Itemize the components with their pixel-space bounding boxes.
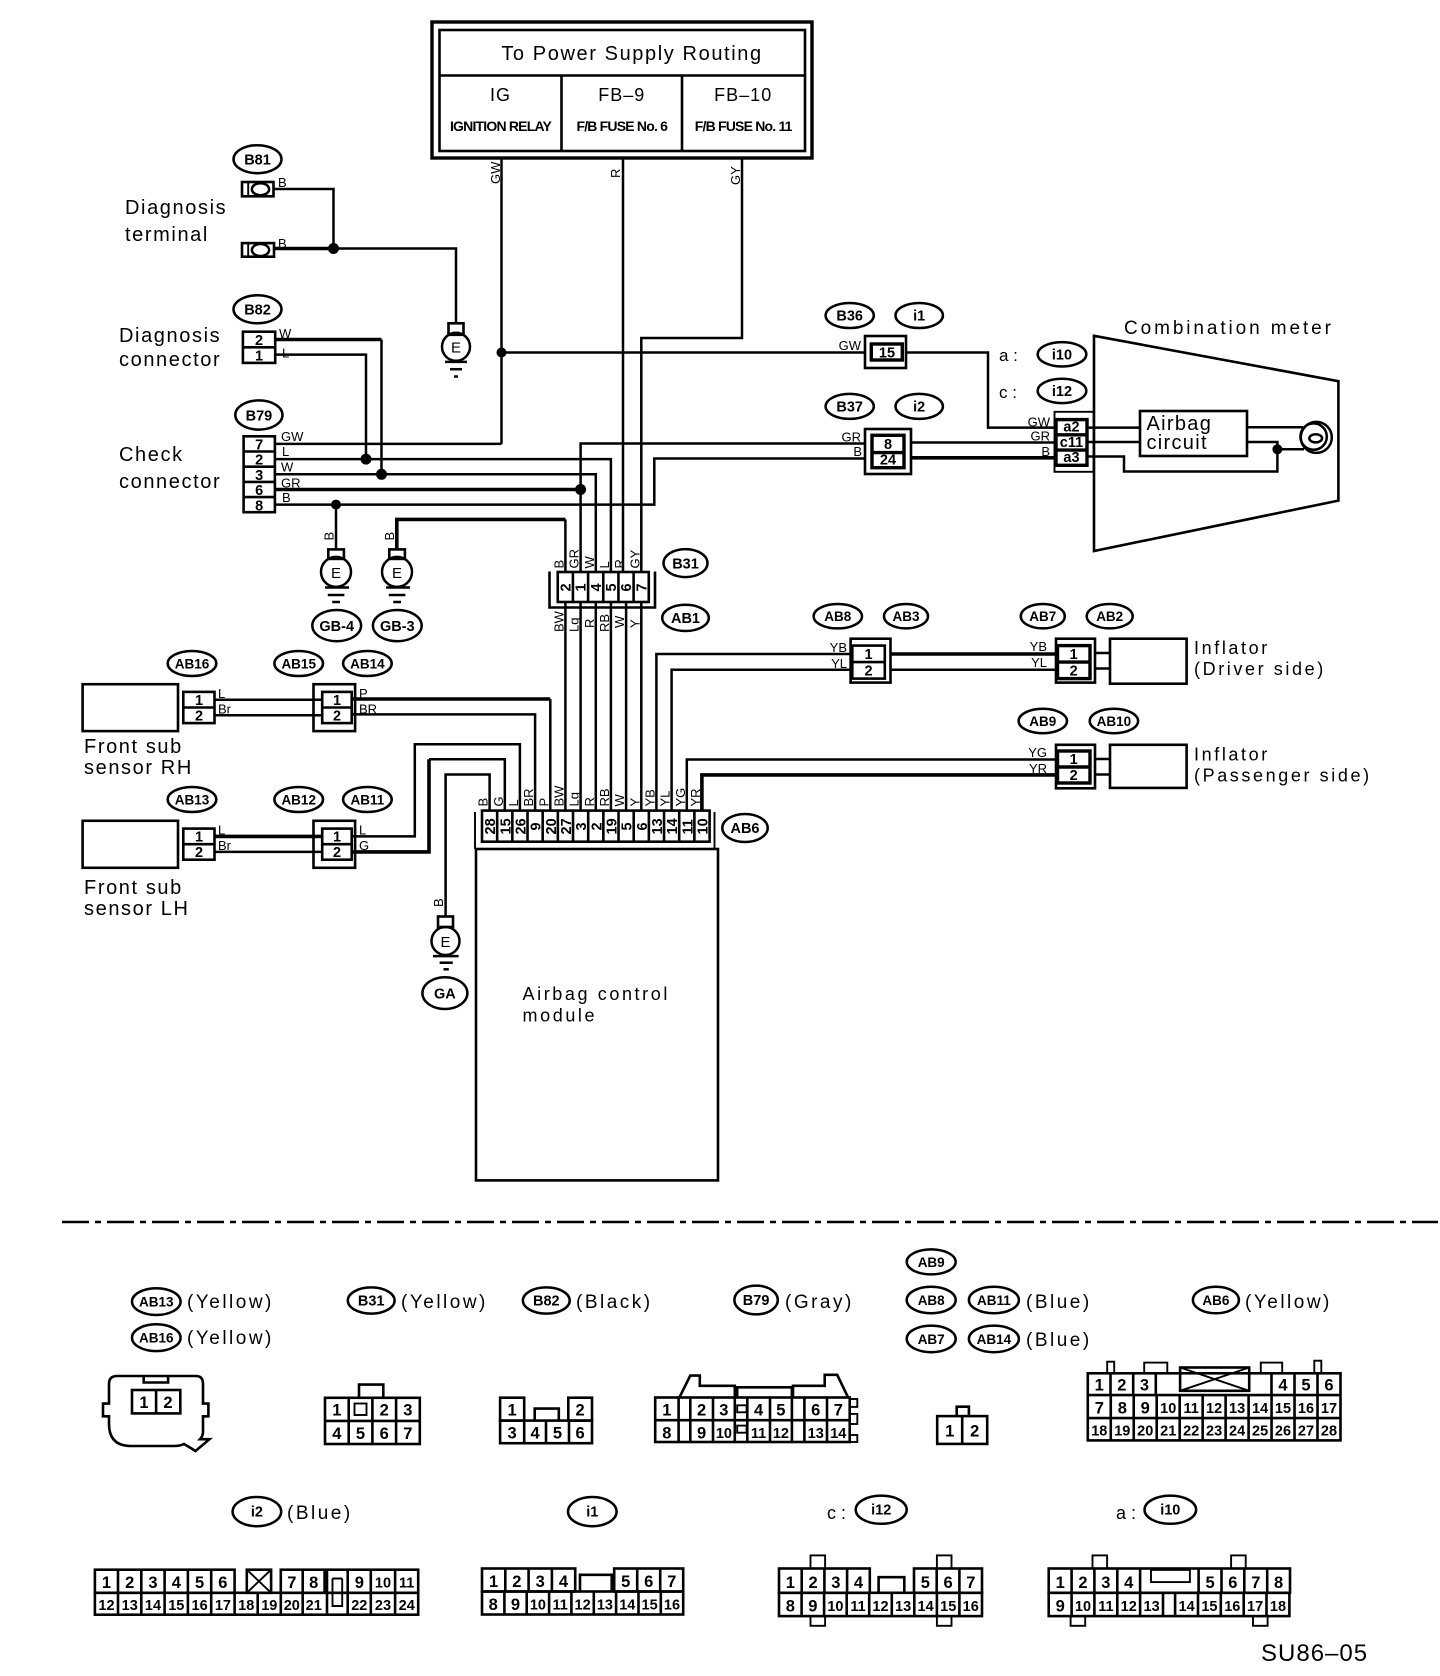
airbag circuit box [1140,411,1247,456]
svg-text:1: 1 [1070,647,1078,663]
svg-text:3: 3 [148,1574,157,1592]
wire BR to module pin9 [352,714,535,810]
svg-text:11: 11 [1098,1599,1113,1615]
svg-text:15: 15 [940,1599,956,1615]
bottom legend AB16 label [132,1324,181,1351]
i2 connector face [95,1570,418,1615]
svg-text:4: 4 [1278,1377,1288,1395]
svg-text:2: 2 [809,1574,818,1592]
svg-text:19: 19 [1114,1424,1130,1440]
diagnosis terminal 1 [242,182,274,196]
svg-text:2: 2 [589,822,605,830]
connector i2 label [896,394,943,419]
svg-text:2: 2 [1070,768,1078,784]
svg-text:RB: RB [597,788,612,806]
wire terminal1 [274,189,334,249]
connector AB12 label [274,787,323,812]
wire YL module pin14 to AB8 [672,670,853,811]
svg-text:a2: a2 [1063,420,1079,436]
wire GW to combination meter B36 [502,351,866,354]
connector B36 pin 15 [865,336,906,368]
svg-text:21: 21 [1160,1424,1176,1440]
wire junction to lamp [1277,448,1304,451]
wire AB8 to AB7 YB [891,652,1058,656]
svg-text:3: 3 [536,1573,545,1591]
svg-text:6: 6 [576,1425,585,1443]
wire check GW [275,443,502,446]
svg-text:YG: YG [1028,745,1047,760]
bottom legend AB6 label [1193,1287,1239,1314]
svg-text:8: 8 [884,437,892,453]
svg-text:Front sub: Front sub [84,736,183,758]
svg-text:5: 5 [620,822,636,830]
svg-text:1: 1 [102,1574,111,1592]
ground E (diagnosis) [442,323,470,376]
connector AB6 label [722,814,767,842]
svg-text:B: B [282,490,291,505]
svg-text:B: B [431,898,446,907]
svg-text:R: R [582,797,597,806]
svg-text:10: 10 [530,1598,546,1614]
svg-text:F/B FUSE No. 6: F/B FUSE No. 6 [576,118,668,134]
svg-text:2: 2 [163,1394,172,1412]
svg-text:10: 10 [1075,1599,1091,1615]
svg-text:8: 8 [786,1598,795,1616]
svg-text:GW: GW [488,161,503,184]
i10 connector face [1049,1555,1290,1625]
svg-text:7: 7 [255,438,263,454]
svg-text:13: 13 [895,1599,911,1615]
svg-text:2: 2 [697,1402,706,1420]
svg-text:12: 12 [1206,1401,1222,1417]
svg-text:16: 16 [1224,1599,1240,1615]
svg-text:Diagnosis: Diagnosis [125,197,227,219]
svg-text:1: 1 [1095,1377,1104,1395]
svg-text:6: 6 [1324,1377,1333,1395]
svg-text:2: 2 [195,845,203,861]
svg-text:5: 5 [195,1574,204,1592]
wire check B to B37 pin24 [275,459,865,505]
connector AB10 label [1090,709,1138,733]
connector AB2 label [1087,604,1133,628]
svg-text:sensor RH: sensor RH [84,757,193,779]
svg-text:i1: i1 [913,309,925,325]
svg-text:13: 13 [650,818,666,834]
svg-text:18: 18 [1270,1599,1286,1615]
connector i1 label [896,303,943,328]
wire P to module pin20 [352,697,551,701]
svg-text:GR: GR [842,430,862,445]
svg-text:a :: a : [999,346,1018,365]
connector AB15 label [274,651,323,676]
svg-text:23: 23 [1206,1424,1222,1440]
wire B down to GB-4 [335,505,338,550]
svg-text:22: 22 [1183,1424,1199,1440]
wire Y B31 to pin6 [640,602,643,811]
svg-text:AB10: AB10 [1097,714,1132,729]
svg-text:L: L [282,444,289,459]
svg-text:3: 3 [403,1402,412,1420]
svg-text:Y: Y [627,798,642,807]
sensor RH connector cells [183,692,214,725]
svg-text:9: 9 [529,822,545,830]
connector AB13 label [168,787,217,812]
svg-text:(Yellow): (Yellow) [187,1328,274,1349]
svg-text:(Black): (Black) [576,1292,653,1313]
svg-text:4: 4 [754,1402,764,1420]
connector AB8 [851,639,891,683]
svg-text:5: 5 [356,1425,365,1443]
svg-text:SU86–05: SU86–05 [1261,1640,1368,1667]
svg-text:AB15: AB15 [281,657,316,672]
svg-text:W: W [582,556,597,569]
svg-text:8: 8 [662,1425,671,1443]
svg-text:3: 3 [1140,1377,1149,1395]
svg-text:17: 17 [1321,1401,1337,1417]
svg-text:B: B [551,560,566,569]
svg-text:26: 26 [513,818,529,834]
svg-text:2: 2 [125,1574,134,1592]
svg-text:7: 7 [667,1573,676,1591]
svg-text:E: E [451,340,461,357]
connector AB11 label [343,787,392,812]
svg-text:16: 16 [1298,1401,1314,1417]
wire sensor LH pin1 to AB12 [215,835,323,839]
svg-text:15: 15 [168,1598,184,1614]
svg-text:AB1: AB1 [671,611,700,627]
svg-text:16: 16 [664,1598,680,1614]
svg-text:AB2: AB2 [1096,609,1123,624]
svg-text:c11: c11 [1060,435,1083,451]
front sub sensor RH box [83,684,178,731]
svg-text:Check: Check [119,444,184,466]
svg-text:15: 15 [642,1598,658,1614]
bottom legend AB9 label [907,1249,956,1274]
wire L AB12 to module pin26 [352,744,520,836]
bottom legend B82 label [523,1287,570,1313]
svg-text:AB9: AB9 [918,1255,945,1270]
svg-text:15: 15 [498,818,514,834]
svg-text:GB-3: GB-3 [380,619,415,635]
connector AB8 label [814,604,862,628]
svg-text:9: 9 [697,1425,706,1443]
bottom legend B31 label [348,1287,395,1313]
svg-text:2: 2 [1070,664,1078,680]
svg-text:R: R [612,559,627,568]
svg-text:Front sub: Front sub [84,877,183,899]
svg-text:B: B [853,444,862,459]
connector AB12 [314,821,356,868]
svg-text:27: 27 [1298,1424,1314,1440]
svg-text:7: 7 [1095,1400,1104,1418]
svg-text:12: 12 [575,1598,591,1614]
svg-text:1: 1 [195,693,203,709]
svg-text:7: 7 [287,1574,296,1592]
svg-text:14: 14 [1252,1401,1268,1417]
svg-text:8: 8 [1118,1400,1127,1418]
GB-4 label [312,610,361,641]
connector AB1 label [662,605,709,631]
inflator passenger side box [1110,745,1187,788]
svg-text:9: 9 [808,1598,817,1616]
svg-text:module: module [523,1006,598,1026]
svg-text:Inflator: Inflator [1194,745,1270,765]
svg-text:connector: connector [119,349,221,371]
connector B31 [550,572,656,608]
svg-text:6: 6 [380,1425,389,1443]
svg-text:AB3: AB3 [892,609,919,624]
connector AB9 label [1019,709,1067,733]
svg-text:F/B FUSE No. 11: F/B FUSE No. 11 [695,118,793,134]
bottom legend AB7 label [907,1326,956,1353]
svg-text:B: B [1041,444,1050,459]
svg-text:(Blue): (Blue) [287,1503,353,1524]
connector B82 label [234,295,282,323]
svg-text:14: 14 [918,1599,934,1615]
svg-text:24: 24 [1229,1424,1245,1440]
svg-text:3: 3 [574,822,590,830]
wire B pin28 to ground GA [446,775,490,917]
svg-text:5: 5 [776,1402,785,1420]
bottom legend AB8 label [907,1287,956,1314]
connector AB15 [314,684,356,731]
GA label [422,977,467,1009]
svg-text:GR: GR [1031,429,1051,444]
connector B81 label [234,145,282,173]
svg-text:AB11: AB11 [977,1293,1011,1308]
svg-text:AB14: AB14 [977,1332,1012,1347]
svg-text:5: 5 [604,583,620,591]
svg-text:AB7: AB7 [1029,609,1056,624]
svg-text:4: 4 [172,1574,182,1592]
link AB7 to inflator [1095,653,1110,669]
svg-text:L: L [282,346,289,361]
svg-text:7: 7 [634,583,650,591]
wire sensor RH pin2 to AB15 [215,714,323,717]
svg-text:13: 13 [808,1426,824,1442]
svg-text:25: 25 [1252,1424,1268,1440]
svg-text:W: W [281,460,294,475]
connector a2/c11/a3 [1055,412,1094,472]
svg-text:B79: B79 [246,409,273,425]
svg-text:15: 15 [879,346,895,362]
connector B79 (check) [244,436,275,514]
svg-text:B: B [322,532,337,541]
svg-text:2: 2 [558,583,574,591]
svg-text:i2: i2 [251,1505,263,1521]
svg-text:2: 2 [380,1402,389,1420]
wire GY from FB-10 [641,158,742,572]
svg-text:1: 1 [1070,752,1078,768]
junction B to ground GB-4 [331,500,341,510]
svg-text:i12: i12 [871,1503,891,1519]
wire B82 W [275,338,381,342]
svg-text:5: 5 [1206,1574,1215,1592]
svg-text:connector: connector [119,471,221,493]
svg-text:1: 1 [574,583,590,591]
wire c11 to airbag circuit [1087,441,1140,444]
svg-text:IG: IG [490,85,511,105]
connector AB16 label [168,651,217,676]
svg-text:19: 19 [261,1598,277,1614]
connector B31 label [664,549,708,577]
svg-text:14: 14 [665,818,681,834]
svg-text:4: 4 [559,1573,569,1591]
svg-text:2: 2 [512,1573,521,1591]
svg-text:2: 2 [195,709,203,725]
svg-text:Lg: Lg [567,792,582,806]
AB13/AB16 connector face [103,1376,210,1451]
svg-text:10: 10 [695,818,711,834]
svg-text:2: 2 [576,1402,585,1420]
svg-text:(Gray): (Gray) [785,1292,854,1313]
i12 connector face [779,1555,982,1625]
bottom legend i10 label [1145,1496,1197,1524]
bottom legend i1 label [568,1497,617,1526]
svg-text:6: 6 [635,822,651,830]
svg-text:18: 18 [238,1598,254,1614]
svg-text:10: 10 [716,1426,732,1442]
svg-text:(Passenger side): (Passenger side) [1194,766,1372,786]
junction GW to B36 [497,348,507,358]
connector AB6 pin row [482,811,711,842]
front sub sensor LH box [83,821,178,868]
wire a2 to airbag circuit [1087,426,1140,429]
B31 connector face [325,1385,420,1444]
svg-text:6: 6 [255,483,263,499]
wire YB module pin13 to AB8 [656,654,852,811]
svg-text:1: 1 [662,1402,671,1420]
ground E GB-4 [321,549,351,602]
svg-text:11: 11 [850,1599,865,1615]
svg-text:3: 3 [508,1425,517,1443]
svg-text:11: 11 [1184,1401,1199,1417]
svg-text:1: 1 [255,349,263,365]
svg-text:AB11: AB11 [351,793,385,808]
wire R B31 to pin2 [595,602,598,811]
svg-text:GY: GY [728,166,743,185]
svg-text:28: 28 [483,818,499,834]
svg-text:2: 2 [1117,1377,1126,1395]
B82 connector face [500,1398,592,1444]
svg-text:B31: B31 [358,1294,385,1310]
wire YG module pin11 to AB9 [687,760,1058,811]
ground E GA [432,917,460,970]
wire B37-24 to a3 [911,456,1055,460]
svg-text:11: 11 [553,1598,568,1614]
connector AB14 label [343,651,392,676]
connector B37 label [826,394,874,419]
svg-text:2: 2 [970,1423,979,1441]
svg-text:12: 12 [1121,1599,1137,1615]
svg-text:2: 2 [333,709,341,725]
svg-text:6: 6 [944,1574,953,1592]
connector B79 label [235,400,282,429]
svg-text:1: 1 [786,1574,795,1592]
svg-text:YB: YB [1030,639,1047,654]
junction W with B82 [376,469,387,480]
wire RB B31 to pin19 [610,602,613,811]
svg-text:terminal: terminal [125,224,209,246]
i1 connector face [482,1569,683,1615]
dashed separator [62,1221,1438,1224]
svg-text:23: 23 [375,1598,391,1614]
svg-text:AB13: AB13 [175,793,210,808]
svg-text:GB-4: GB-4 [319,619,354,635]
svg-text:2: 2 [864,664,872,680]
svg-text:3: 3 [1101,1574,1110,1592]
svg-text:2: 2 [333,845,341,861]
svg-text:E: E [392,565,402,582]
wire a3 loop under airbag circuit [1087,442,1277,472]
svg-text:16: 16 [192,1598,208,1614]
bottom legend AB14 label [969,1326,1019,1353]
svg-text:i10: i10 [1052,348,1072,364]
svg-text:20: 20 [544,818,560,834]
wire R from FB-9 [622,158,625,572]
svg-text:a :: a : [1116,1503,1136,1523]
svg-text:(Yellow): (Yellow) [1245,1292,1332,1313]
bottom legend B79 label [734,1286,777,1315]
wire sensor RH pin1 to AB15 [215,698,323,701]
svg-text:B: B [382,532,397,541]
svg-text:6: 6 [811,1402,820,1420]
svg-text:11: 11 [680,819,696,834]
svg-text:B37: B37 [836,400,863,416]
svg-text:B31: B31 [672,557,699,573]
svg-text:E: E [331,565,341,582]
svg-text:AB9: AB9 [1029,714,1056,729]
svg-text:GW: GW [1028,415,1051,430]
svg-text:AB16: AB16 [175,657,210,672]
svg-text:21: 21 [306,1598,322,1614]
svg-text:24: 24 [399,1598,415,1614]
svg-text:14: 14 [1179,1599,1195,1615]
svg-text:Airbag control: Airbag control [523,984,670,1004]
connector B82 [243,332,275,365]
svg-text:AB13: AB13 [139,1295,174,1310]
svg-text:12: 12 [872,1599,888,1615]
svg-text:GR: GR [567,549,582,569]
svg-text:Diagnosis: Diagnosis [119,325,221,347]
svg-text:22: 22 [351,1598,367,1614]
svg-text:Combination meter: Combination meter [1124,318,1334,339]
svg-text:19: 19 [604,818,620,834]
small 2-pin connector face [937,1407,987,1444]
svg-text:GW: GW [839,338,862,353]
svg-text:GA: GA [434,987,456,1003]
B79 connector face [655,1375,857,1443]
svg-text:1: 1 [333,830,341,846]
combination meter trapezoid [1094,336,1338,551]
svg-text:8: 8 [255,498,263,514]
svg-text:8: 8 [309,1574,318,1592]
svg-text:24: 24 [880,453,896,469]
diagnosis terminal 2 [242,243,274,257]
svg-text:20: 20 [1137,1424,1153,1440]
svg-text:6: 6 [619,583,635,591]
svg-text:circuit: circuit [1147,432,1208,454]
svg-text:1: 1 [945,1423,954,1441]
wire AB8 to AB7 YL [891,669,1058,672]
svg-text:13: 13 [1229,1401,1245,1417]
svg-text:E: E [440,934,450,951]
svg-text:5: 5 [553,1425,562,1443]
svg-text:10: 10 [1160,1401,1176,1417]
connector AB7 [1056,639,1095,683]
wire check W to B31 pin4 [275,474,596,571]
wire B37-8 to c11 [911,441,1055,444]
